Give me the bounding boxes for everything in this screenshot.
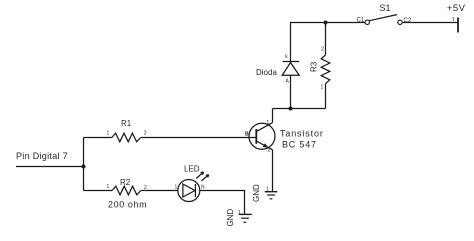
ground GND2 (emitter) [252, 184, 278, 202]
svg-text:Tansistor: Tansistor [280, 129, 324, 139]
svg-text:1: 1 [321, 85, 324, 91]
svg-text:1: 1 [107, 131, 110, 137]
switch S1 [357, 15, 412, 25]
node junction R3 top [324, 21, 328, 25]
wire R2 to LED [141, 190, 178, 192]
wire diode upper lead + top rail left [291, 23, 366, 62]
wire diode lower lead [290, 75, 292, 108]
wire collector vertical [272, 109, 274, 123]
wire R1 left lead [84, 137, 112, 139]
svg-text:+5V: +5V [447, 3, 466, 14]
wire switch to +5V [402, 22, 457, 24]
svg-text:S1: S1 [380, 3, 391, 13]
svg-text:R1: R1 [121, 119, 132, 128]
svg-text:N: N [201, 185, 205, 191]
svg-text:2: 2 [268, 148, 271, 154]
wire node vertical [83, 138, 85, 191]
wire LED to ground corner [200, 191, 245, 215]
wire pin digital 7 lead [16, 166, 84, 168]
svg-text:BC 547: BC 547 [282, 140, 317, 150]
diode D1 Dioda [282, 54, 299, 85]
svg-text:R2: R2 [120, 178, 131, 187]
terminal +5V [452, 17, 458, 33]
svg-text:Pin Digital 7: Pin Digital 7 [16, 151, 68, 161]
svg-text:1: 1 [266, 187, 269, 193]
svg-text:LED: LED [184, 164, 200, 173]
LED D2 [175, 172, 209, 202]
wire R3 lower lead [325, 84, 327, 109]
ground GND1 (LED) [226, 209, 252, 227]
svg-text:R3: R3 [310, 61, 319, 72]
wire bottom rail of diode/R3 [273, 108, 326, 110]
svg-text:1: 1 [175, 185, 178, 191]
svg-text:GND: GND [252, 184, 261, 202]
svg-text:B: B [245, 132, 249, 138]
svg-text:2: 2 [321, 47, 324, 53]
svg-text:GND: GND [226, 209, 235, 227]
node junction J1 [82, 165, 86, 169]
wire R2 left lead [84, 190, 113, 192]
svg-text:2: 2 [144, 131, 147, 137]
svg-text:1: 1 [452, 17, 455, 23]
svg-text:200 ohm: 200 ohm [108, 200, 147, 210]
svg-text:A: A [286, 79, 290, 85]
wire emitter vertical [272, 150, 274, 192]
resistor R3 [310, 47, 330, 91]
svg-text:1: 1 [267, 120, 270, 126]
svg-text:Dioda: Dioda [256, 68, 277, 77]
svg-text:C1: C1 [357, 17, 365, 23]
wire R1 to base [141, 137, 257, 139]
resistor R1 [107, 119, 147, 142]
svg-text:1: 1 [238, 210, 241, 216]
svg-text:k: k [285, 54, 288, 60]
svg-text:1: 1 [107, 184, 110, 190]
resistor R2 [107, 178, 148, 210]
wire R3 upper lead [325, 23, 327, 56]
transistor Q1 BC547 [245, 120, 275, 154]
node junction diode bottom [289, 107, 293, 111]
